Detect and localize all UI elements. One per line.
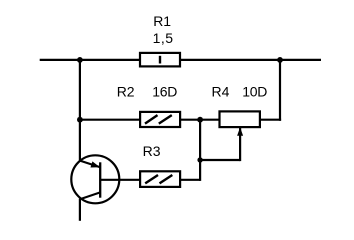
svg-text:R1: R1 bbox=[153, 13, 171, 29]
svg-text:R4: R4 bbox=[212, 84, 230, 100]
svg-text:16D: 16D bbox=[152, 84, 177, 100]
svg-text:R2: R2 bbox=[117, 84, 135, 100]
svg-text:1,5: 1,5 bbox=[153, 30, 174, 46]
svg-text:10D: 10D bbox=[242, 84, 267, 100]
svg-text:R3: R3 bbox=[143, 143, 161, 159]
